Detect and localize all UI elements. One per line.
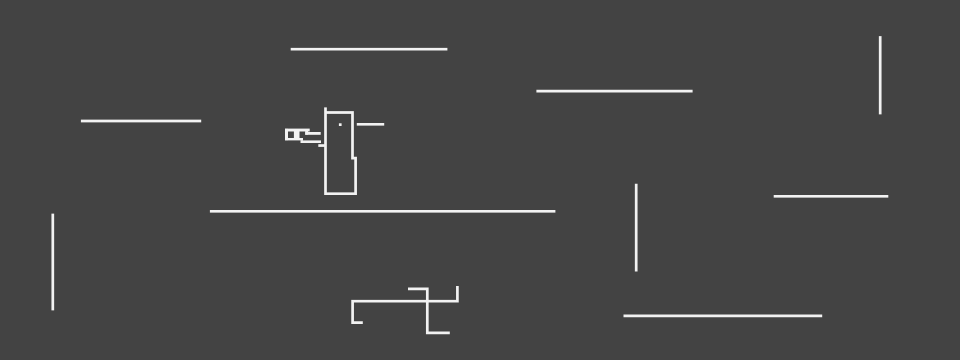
platform line mid-right bbox=[774, 195, 889, 198]
sprite arm step connector bbox=[305, 131, 308, 134]
sprite whisker bbox=[357, 123, 384, 126]
platform line lower-right bbox=[624, 315, 823, 318]
sprite arm foot bar bbox=[318, 144, 325, 147]
long platform line center bbox=[210, 210, 556, 213]
wall line left bbox=[51, 214, 54, 311]
sprite arm mid column bbox=[294, 131, 300, 138]
sprite arm left edge bbox=[285, 129, 288, 141]
S-path lower arm bbox=[353, 286, 458, 323]
sprite arm lower band bbox=[285, 138, 303, 140]
wall line far-right top bbox=[879, 36, 882, 114]
sprite arm step bar bbox=[301, 140, 322, 143]
sprite eye dot bbox=[339, 123, 342, 126]
platform line upper-left bbox=[81, 120, 201, 123]
S-path upper hook bbox=[408, 289, 450, 333]
platform line upper-right bbox=[536, 90, 692, 93]
platform line top-center bbox=[291, 48, 448, 51]
sprite arm top bar bbox=[285, 129, 310, 132]
wall line center-right bbox=[635, 184, 638, 272]
sprite head outline bbox=[326, 107, 356, 193]
sprite arm second bar bbox=[305, 132, 321, 135]
